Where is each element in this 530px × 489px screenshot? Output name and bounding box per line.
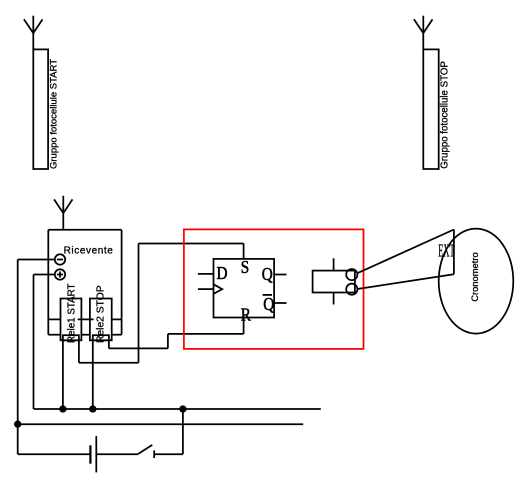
receiver box Ricevente <box>48 230 121 335</box>
battery wire left <box>18 453 91 455</box>
switch S1 <box>138 445 154 458</box>
antenna receiver <box>54 196 72 230</box>
svg-text:Q: Q <box>263 294 274 314</box>
switch wire right <box>154 453 183 455</box>
pin CK stub <box>198 288 214 290</box>
svg-text:EXT: EXT <box>438 241 455 261</box>
minus terminal <box>55 254 65 264</box>
supply rail 2 <box>18 423 304 425</box>
junction dot <box>60 406 66 412</box>
wire minus to left <box>18 259 55 261</box>
svg-text:Rele2 STOP: Rele2 STOP <box>96 285 107 343</box>
svg-text:Cronometro: Cronometro <box>469 252 480 302</box>
svg-text:Q: Q <box>262 264 273 284</box>
photocell group STOP box <box>423 49 438 169</box>
pin D stub <box>198 273 214 275</box>
svg-text:S: S <box>241 257 249 277</box>
wire plus to left <box>34 274 55 276</box>
photocell group START box <box>33 49 48 169</box>
relay1 pin B wire to S <box>79 244 244 363</box>
coil top pin <box>333 258 335 270</box>
relay K1 <box>61 299 82 341</box>
junction dot <box>15 421 21 427</box>
junction dot <box>180 406 186 412</box>
svg-text:Gruppo fotocellule STOP: Gruppo fotocellule STOP <box>440 61 451 169</box>
pin Qbar stub <box>274 302 286 304</box>
contact circle bottom <box>346 284 357 295</box>
relay coil K3 <box>313 271 355 293</box>
battery B1 <box>90 436 96 472</box>
callout line upper <box>357 230 454 274</box>
contact wire across receiver <box>48 318 121 320</box>
relay K2 <box>90 299 112 341</box>
callout line lower <box>357 274 454 289</box>
plus terminal <box>55 269 65 279</box>
chronometer ellipse <box>439 229 514 334</box>
callout vertical <box>453 230 455 275</box>
antenna STOP <box>414 16 433 50</box>
relay2 pin B wire to R <box>109 318 244 349</box>
relay2 pin A wire <box>92 340 94 409</box>
antenna START <box>24 16 43 50</box>
supply rail 1 <box>34 408 321 410</box>
wire plus vertical down <box>33 275 35 410</box>
flip-flop U1 <box>214 259 275 318</box>
svg-text:D: D <box>217 263 228 283</box>
coil bottom pin <box>333 293 335 305</box>
wire minus vertical down <box>17 260 19 455</box>
svg-text:Ricevente: Ricevente <box>64 246 114 257</box>
svg-text:Gruppo fotocellule START: Gruppo fotocellule START <box>48 59 59 169</box>
svg-text:R: R <box>241 305 251 325</box>
contact circle top <box>346 269 357 280</box>
pin Q stub <box>274 274 286 276</box>
junction dot <box>90 406 96 412</box>
svg-text:Rele1 START: Rele1 START <box>66 283 77 343</box>
battery wire right <box>96 453 138 455</box>
wire switch to rail <box>182 409 184 454</box>
red block boundary <box>184 229 364 349</box>
relay1 pin A wire <box>62 340 64 409</box>
clock triangle <box>214 284 223 294</box>
